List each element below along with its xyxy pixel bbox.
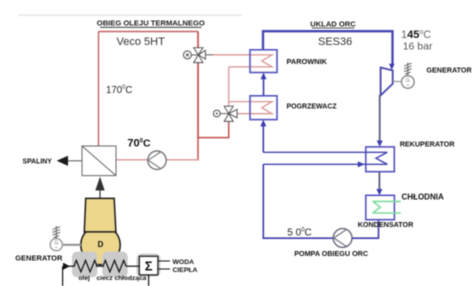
svg-text:olej: olej <box>79 275 91 282</box>
valve V2 <box>224 106 237 121</box>
coil PAROWNIK oil <box>229 55 272 67</box>
wire oil right vertical to valve V1 <box>197 32 199 49</box>
wire SPALINY line <box>68 160 82 162</box>
arrow into turbine <box>389 64 395 70</box>
svg-text:700C: 700C <box>127 138 151 150</box>
wire valve V1 to PAROWNIK <box>213 54 250 56</box>
evaporator PAROWNIK box <box>250 50 277 73</box>
arrow into REKUPERATOR <box>377 141 383 147</box>
wire oil top horizontal <box>99 31 199 33</box>
heater pad olej <box>72 252 97 278</box>
wire oil top-left vertical <box>98 32 100 147</box>
generator engine mast <box>53 226 61 239</box>
wire pump to condenser <box>352 220 379 239</box>
wire REKUPERATOR to KONDENSATOR <box>378 172 380 190</box>
pump oil <box>148 151 166 169</box>
valve V1 port dash <box>205 54 213 56</box>
svg-text:~: ~ <box>55 246 59 252</box>
wire turbine outlet <box>379 95 381 142</box>
wire between resistors <box>96 265 104 267</box>
condenser KONDENSATOR box <box>366 195 395 219</box>
svg-text:POGRZEWACZ: POGRZEWACZ <box>287 104 338 111</box>
wire oil valve V1 down <box>197 62 199 138</box>
resistor ciecz chlodzaca <box>103 260 126 272</box>
generator turbine circle <box>402 76 415 89</box>
svg-text:5 00C: 5 00C <box>287 227 311 238</box>
wire oil pump to return <box>166 159 198 161</box>
svg-text:SES36: SES36 <box>318 36 352 48</box>
generator turbine link <box>393 81 402 83</box>
wire coil to POGRZEWACZ <box>262 126 264 153</box>
wire sigma down <box>148 275 150 286</box>
heater pad ciecz <box>102 252 128 278</box>
svg-text:~: ~ <box>406 83 410 89</box>
svg-text:16 bar: 16 bar <box>403 41 433 53</box>
heat exchanger spalin (flue gas) <box>82 146 116 176</box>
arrow into POGRZEWACZ <box>260 120 266 127</box>
generator turbine mast <box>404 63 412 76</box>
svg-text:Σ: Σ <box>145 259 153 274</box>
svg-text:POMPA OBIEGU ORC: POMPA OBIEGU ORC <box>294 249 368 258</box>
svg-text:CIEPŁA: CIEPŁA <box>173 267 198 274</box>
svg-text:UKLAD ORC: UKLAD ORC <box>310 19 356 28</box>
wire POGRZEWACZ coil top from junction <box>229 102 272 114</box>
valve V2 actuator <box>213 110 220 117</box>
wire PAROWNIK exit down to valve V2 <box>228 67 230 107</box>
generator engine circle <box>50 239 62 251</box>
wire resistor to sigma <box>126 265 139 267</box>
svg-text:GENERATOR: GENERATOR <box>426 66 472 75</box>
svg-text:KONDENSATOR: KONDENSATOR <box>358 220 414 229</box>
svg-text:REKUPERATOR: REKUPERATOR <box>400 139 456 148</box>
svg-text:SPALINY: SPALINY <box>23 158 53 165</box>
svg-text:1700C: 1700C <box>106 84 132 96</box>
wire heat line with arrow <box>63 263 70 270</box>
arrow engine to hx <box>99 188 101 198</box>
wire hx to pump <box>116 159 148 161</box>
wire woda lines <box>158 260 170 262</box>
wire pump riser <box>263 164 333 238</box>
resistor olej <box>74 260 97 272</box>
turbine <box>381 68 393 96</box>
arrow into coil <box>358 161 365 167</box>
generator engine link <box>62 244 82 246</box>
sigma box <box>139 256 158 275</box>
coil REKUPERATOR <box>263 152 387 164</box>
wire oil down to pump level <box>197 138 199 161</box>
heater pad sigma <box>137 254 161 277</box>
arrow into PAROWNIK <box>261 73 267 80</box>
engine block <box>84 198 116 232</box>
svg-text:Veco 5HT: Veco 5HT <box>117 36 166 48</box>
arrow into KONDENSATOR <box>376 189 382 195</box>
faint window edge line <box>18 14 242 16</box>
svg-text:OBIEG OLEJU TERMALNEGO: OBIEG OLEJU TERMALNEGO <box>97 19 205 28</box>
engine dome <box>81 225 120 264</box>
svg-text:145oC: 145oC <box>401 29 431 41</box>
wire oil jog valve V2 return <box>198 122 229 138</box>
svg-text:ciecz chłodząca: ciecz chłodząca <box>97 275 147 282</box>
svg-text:CHŁODNIA: CHŁODNIA <box>402 192 444 201</box>
preheater POGRZEWACZ box <box>250 96 277 120</box>
arrow SPALINY out <box>57 156 68 166</box>
wire ORC top loop <box>263 31 393 64</box>
svg-text:WODA: WODA <box>173 259 195 266</box>
svg-text:D: D <box>98 240 104 249</box>
pump ORC <box>333 229 352 248</box>
valve V1 actuator <box>183 51 191 59</box>
coil KONDENSATOR cooling water <box>373 201 401 213</box>
recuperator REKUPERATOR box <box>366 147 395 172</box>
svg-text:GENERATOR: GENERATOR <box>15 253 63 262</box>
svg-text:PAROWNIK: PAROWNIK <box>287 57 328 66</box>
wire POGRZEWACZ to PAROWNIK <box>263 79 265 96</box>
valve V1 <box>194 48 206 63</box>
